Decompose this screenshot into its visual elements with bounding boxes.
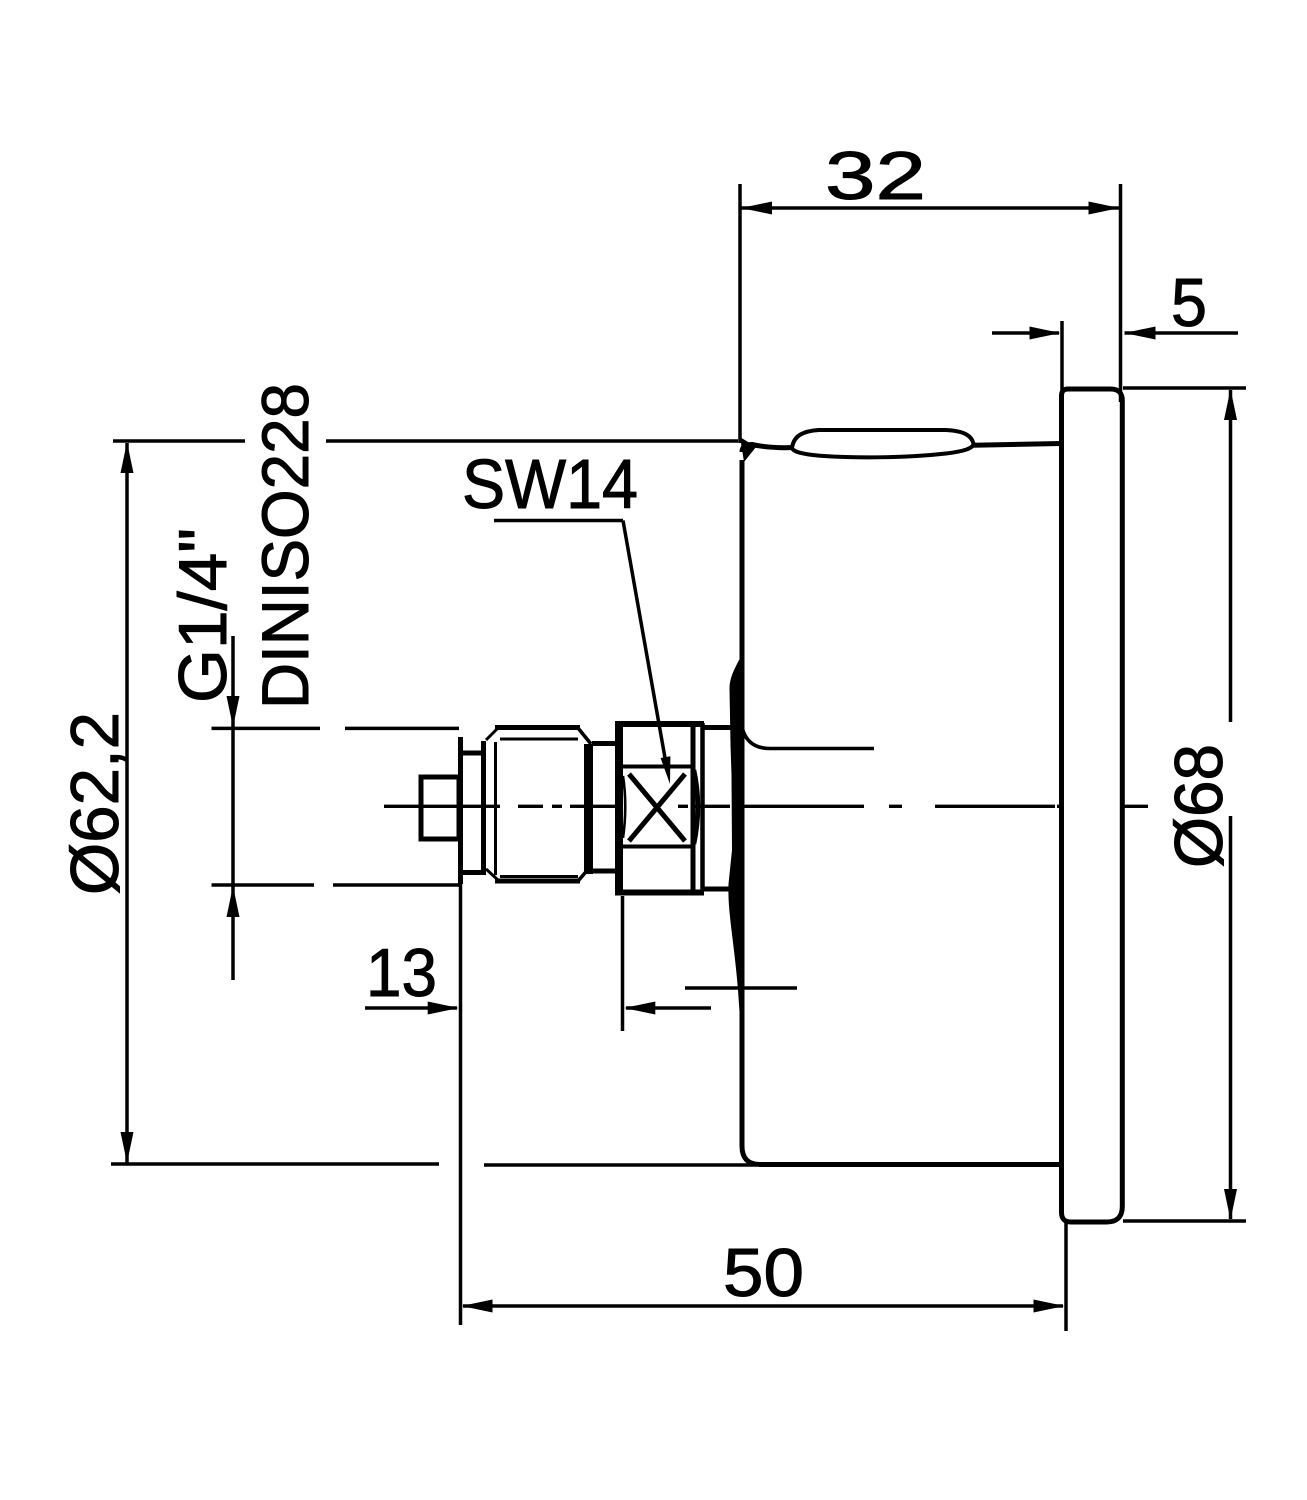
connection tip square <box>421 777 459 839</box>
case inner top line and fillet <box>743 729 875 749</box>
svg-text:5: 5 <box>1171 265 1207 341</box>
centerline <box>384 805 1148 808</box>
thread undercut <box>461 741 485 875</box>
sealing plate edge <box>458 737 463 884</box>
dim 13 <box>365 884 711 1325</box>
thread root lines <box>500 738 578 741</box>
svg-text:Ø62,2: Ø62,2 <box>57 712 133 895</box>
hex corner arcs <box>694 770 698 844</box>
svg-text:13: 13 <box>366 935 437 1011</box>
svg-text:SW14: SW14 <box>462 445 638 523</box>
neck between thread and hex <box>592 741 616 746</box>
hex nut SW14 <box>615 722 623 893</box>
dim diameter 68 <box>1123 388 1246 1221</box>
dim G1/4 thread <box>212 636 460 980</box>
svg-text:G1/4": G1/4" <box>165 528 241 703</box>
dim diameter 62,2 <box>111 441 757 1165</box>
bezel (front ring) <box>1062 389 1123 1222</box>
washer behind hex <box>691 723 696 891</box>
G1/4 thread block <box>495 728 580 882</box>
svg-text:32: 32 <box>825 138 926 214</box>
fill plug capsule on case top <box>792 430 974 457</box>
svg-text:50: 50 <box>723 1235 804 1311</box>
dim 32 <box>740 184 1121 443</box>
case lower ledge line <box>685 986 797 989</box>
hex flat cross mark <box>629 774 685 841</box>
svg-text:Ø68: Ø68 <box>1161 744 1237 868</box>
thread runout line <box>494 742 497 875</box>
case wall thickened band at stem joint <box>728 656 744 1035</box>
case body outline <box>742 444 1061 1165</box>
dim 50 <box>463 1222 1066 1331</box>
svg-text:DINISO228: DINISO228 <box>248 383 322 709</box>
dim 5 <box>992 321 1238 393</box>
case top-left corner wedge <box>740 437 756 462</box>
